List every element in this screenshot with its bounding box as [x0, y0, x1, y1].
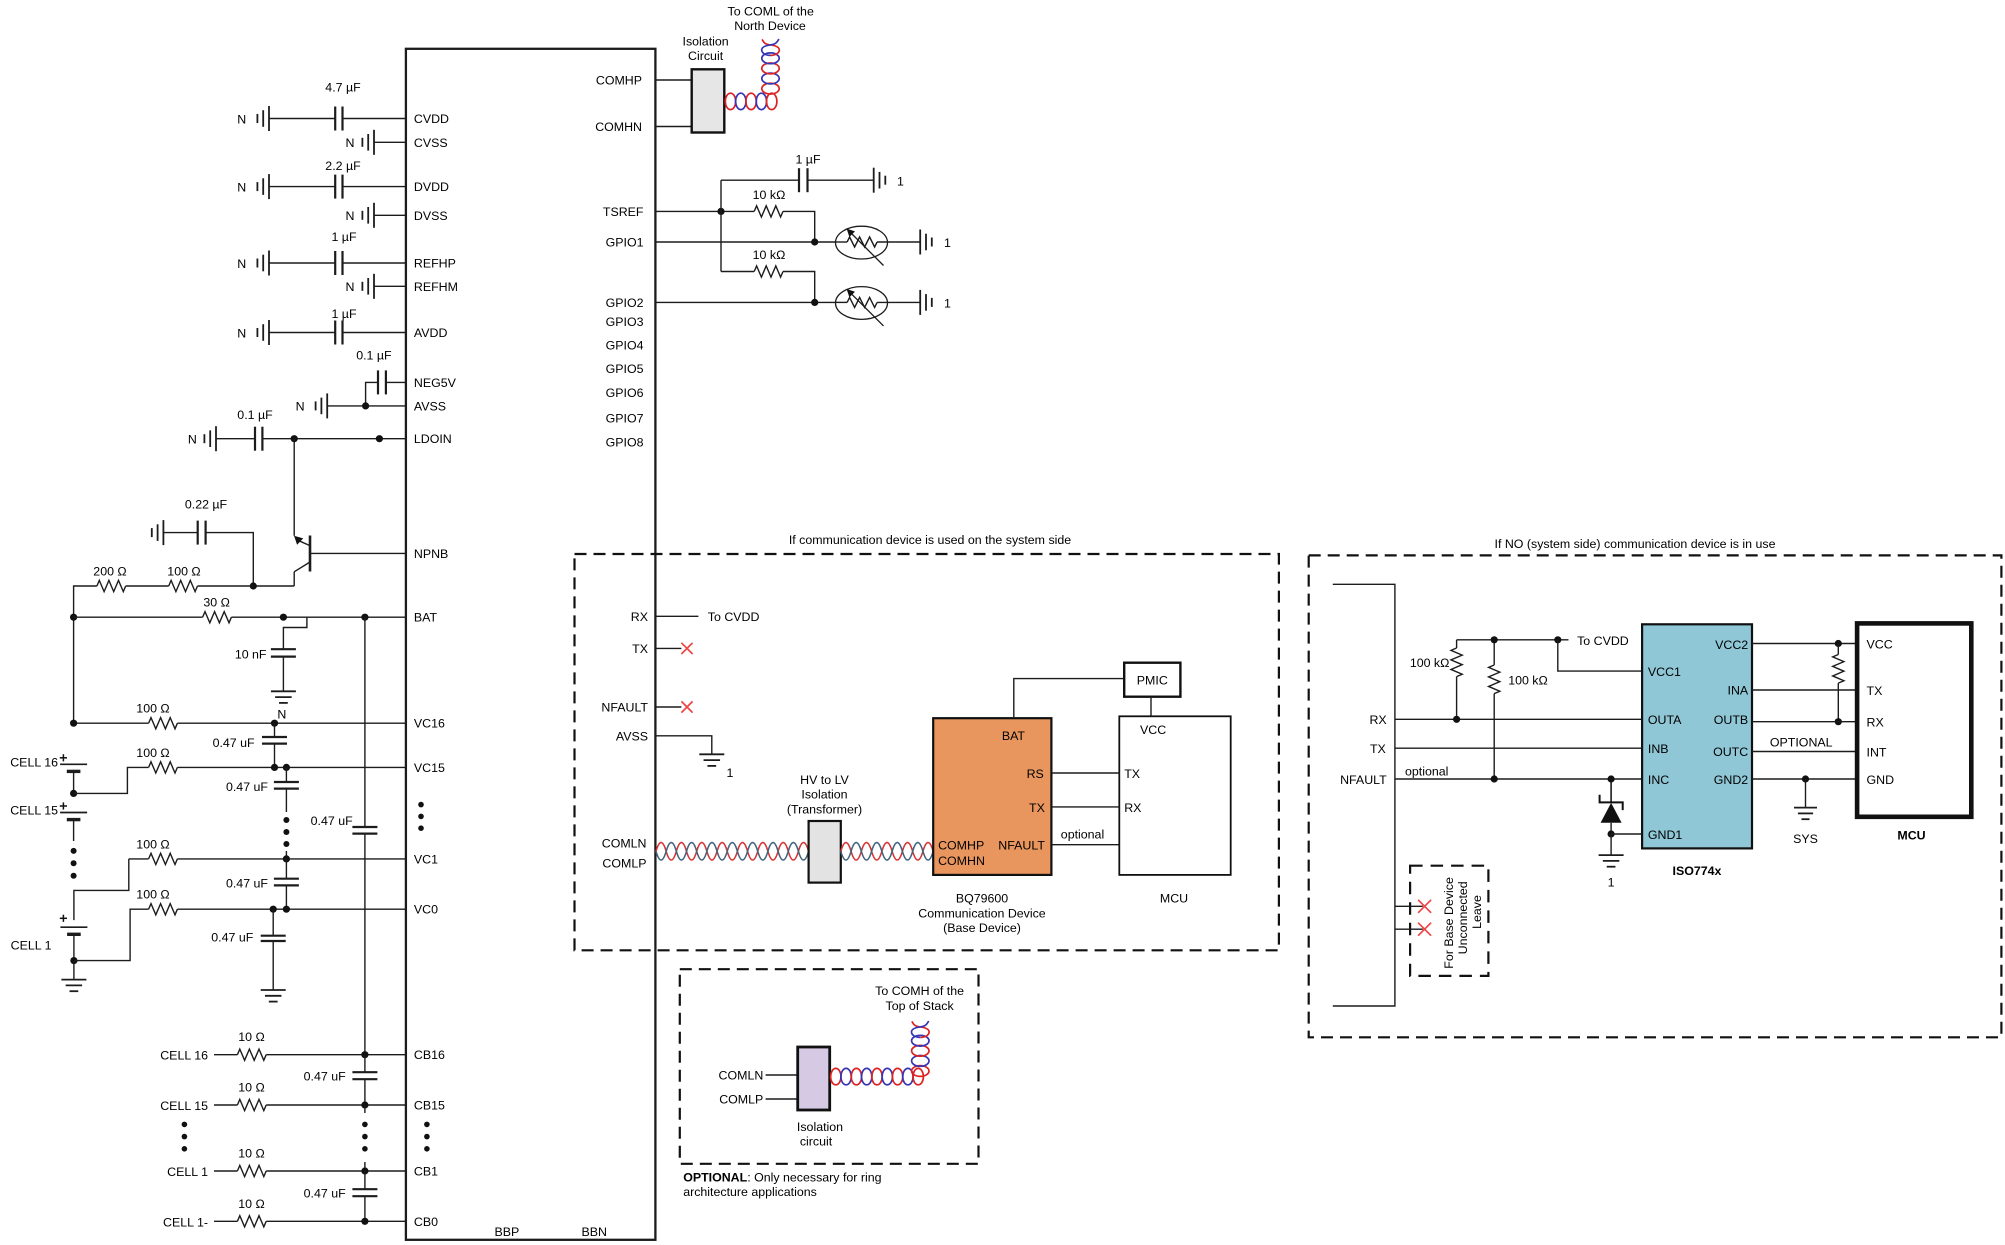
resistor 100k pullup RX — [1451, 648, 1462, 677]
coil top curl — [762, 39, 779, 55]
wire N to C-REFHP — [269, 262, 335, 264]
svg-text:If communication device is use: If communication device is used on the s… — [789, 533, 1071, 547]
svg-text:4.7 µF: 4.7 µF — [325, 81, 361, 95]
wire CELL16- jog to VC15 resistor — [74, 767, 149, 793]
svg-text:GPIO4: GPIO4 — [606, 338, 644, 352]
svg-text:COMLN: COMLN — [602, 837, 647, 851]
node GND1 junction — [1608, 830, 1615, 837]
wire CB0 to pin — [266, 1220, 406, 1222]
svg-text:OUTB: OUTB — [1714, 713, 1748, 727]
capacitor 0.47uF VC16-VC15 — [262, 736, 287, 738]
wire GND2 to MCU GND — [1752, 778, 1857, 780]
svg-text:RX: RX — [1369, 713, 1386, 727]
svg-text:BBP: BBP — [495, 1225, 520, 1239]
net N stub for DVSS — [373, 203, 375, 228]
wire COMHN to isolation circuit — [655, 126, 691, 128]
wire 1uF to net 1 — [808, 179, 874, 181]
node INC diode tap — [1608, 775, 1615, 782]
net N stub for CVSS — [373, 130, 375, 155]
capacitor 0.1uF NEG5V — [377, 370, 379, 394]
svg-text:0.47 uF: 0.47 uF — [304, 1187, 346, 1201]
svg-text:10 Ω: 10 Ω — [238, 1081, 265, 1095]
svg-text:0.47 uF: 0.47 uF — [226, 780, 268, 794]
svg-text:Isolation: Isolation — [797, 1120, 843, 1134]
wire R2 top to rail — [1493, 640, 1495, 665]
svg-text:CVSS: CVSS — [414, 136, 448, 150]
wire C-REFHP to REFHP pin — [343, 262, 406, 264]
svg-text:VCC1: VCC1 — [1648, 665, 1681, 679]
svg-text:REFHM: REFHM — [414, 280, 458, 294]
wire CELL15 bottom stub — [73, 820, 75, 841]
wire N to CVSS pin — [374, 141, 406, 143]
node BAT left — [70, 614, 77, 621]
wire TSREF from pin — [655, 210, 754, 212]
svg-text:2.2 µF: 2.2 µF — [325, 159, 361, 173]
resistor 10 Ohm (CB0) — [237, 1216, 266, 1227]
svg-text:OPTIONAL: Only necessary for r: OPTIONAL: Only necessary for ring — [683, 1171, 881, 1185]
node LDOIN junction to transistor — [291, 435, 298, 442]
capacitor 1uF AVDD — [334, 321, 336, 345]
svg-text:Communication Device: Communication Device — [918, 907, 1046, 921]
svg-text:CELL 1: CELL 1 — [11, 939, 52, 953]
HV to LV transformer box — [809, 821, 841, 883]
wire TX stub — [655, 647, 681, 649]
PMIC box — [1124, 663, 1180, 697]
dashed box: communication device on system side — [575, 554, 1279, 950]
svg-text:To CVDD: To CVDD — [1577, 634, 1629, 648]
svg-text:CB16: CB16 — [414, 1048, 445, 1062]
wire cap2 below — [285, 789, 287, 812]
svg-text:HV to LV: HV to LV — [800, 773, 849, 787]
svg-text:1: 1 — [944, 236, 951, 250]
resistor 100 Ohm (VC15) — [149, 762, 178, 773]
wire TSREF trunk up — [720, 180, 722, 211]
coil vertical (COMH link) — [762, 83, 779, 94]
svg-text:10 Ω: 10 Ω — [238, 1030, 265, 1044]
resistor 10 kOhm (GPIO2) — [754, 266, 783, 277]
battery CELL 15 — [60, 812, 87, 814]
wire GPIO2 from pin — [655, 301, 835, 303]
wire OUTB to MCU RX — [1752, 721, 1857, 723]
thermistor TH1 ellipse — [836, 226, 888, 259]
wire VC0 cap to ground — [272, 941, 274, 990]
svg-text:N: N — [345, 209, 354, 223]
svg-text:GPIO3: GPIO3 — [606, 315, 644, 329]
svg-text:10 nF: 10 nF — [235, 648, 267, 662]
wire VC0 to pin — [177, 908, 406, 910]
node BAT 10nF tap — [280, 614, 287, 621]
wire TX to MCU RX — [1051, 806, 1119, 808]
node VC0 cap tap — [270, 906, 277, 913]
wire cap to VC15 — [274, 744, 276, 768]
svg-text:Circuit: Circuit — [688, 49, 724, 63]
wire N to DVSS pin — [374, 214, 406, 216]
capacitor 0.1uF LDOIN — [254, 427, 256, 451]
wire VC15 to pin — [177, 766, 406, 768]
svg-text:CELL 1-: CELL 1- — [163, 1215, 208, 1229]
ellipsis inside IC (VC pins) — [418, 802, 424, 808]
wire trunk to 1uF cap — [721, 179, 799, 181]
transistor Q1 bottom diagonal (emitter) — [294, 562, 310, 572]
svg-text:MCU: MCU — [1897, 829, 1925, 843]
wire junction to R100 — [198, 585, 254, 587]
resistor 100 Ohm (VC16) — [149, 718, 178, 729]
wire R2 to NFAULT line — [1493, 694, 1495, 779]
wire C-AVDD to AVDD pin — [343, 332, 406, 334]
node CB0 cap bottom — [361, 1218, 368, 1225]
wire N to AVSS pin — [327, 405, 406, 407]
svg-text:OUTC: OUTC — [1713, 745, 1748, 759]
net stub for 0.22uF cap — [162, 520, 164, 545]
svg-text:REFHP: REFHP — [414, 257, 456, 271]
node RX pullup — [1453, 716, 1460, 723]
net N stub for AVSS — [326, 393, 328, 418]
wire emitter down — [293, 572, 295, 586]
svg-text:RS: RS — [1027, 767, 1044, 781]
wire cap to CB0 — [364, 1196, 366, 1221]
svg-text:Isolation: Isolation — [801, 788, 847, 802]
svg-text:VCC2: VCC2 — [1715, 638, 1748, 652]
bus bracket — [1333, 584, 1395, 1006]
svg-text:10 kΩ: 10 kΩ — [753, 248, 786, 262]
svg-text:CB1: CB1 — [414, 1165, 438, 1179]
svg-text:GND2: GND2 — [1714, 773, 1749, 787]
resistor 30 Ohm (BAT) — [203, 612, 232, 623]
svg-text:VC16: VC16 — [414, 717, 445, 731]
wire GPIO1 from pin — [655, 241, 835, 243]
node GND2 SYS tap — [1802, 775, 1809, 782]
wire unconnected stub 2 — [1395, 928, 1423, 930]
svg-text:(Base Device): (Base Device) — [943, 921, 1021, 935]
wire CELL1 bottom — [73, 934, 75, 960]
wire 10nF to ground — [282, 657, 284, 692]
ground below CELL1 — [73, 961, 75, 980]
capacitor 0.47uF CB1-CB0 — [352, 1188, 377, 1190]
wire VC1 to pin — [177, 858, 406, 860]
ellipsis inside IC (CB pins) — [424, 1122, 430, 1128]
svg-text:CB0: CB0 — [414, 1215, 438, 1229]
wire C-NEG5V to NEG5V pin — [386, 381, 406, 383]
resistor 10 Ohm (CB15) — [237, 1099, 266, 1110]
svg-text:GPIO6: GPIO6 — [606, 386, 644, 400]
svg-text:GPIO2: GPIO2 — [606, 296, 644, 310]
wire BAT middle segment — [231, 616, 406, 618]
svg-text:10 Ω: 10 Ω — [238, 1147, 265, 1161]
node VC16 left — [70, 720, 77, 727]
node AVSS/NEG5V junction — [362, 402, 369, 409]
wire R10k to GPIO1 — [783, 211, 815, 242]
MCU box (right) — [1857, 623, 1971, 816]
svg-text:TSREF: TSREF — [603, 205, 644, 219]
svg-text:PMIC: PMIC — [1137, 674, 1168, 688]
svg-text:INT: INT — [1867, 745, 1887, 759]
wire BAT rail left vertical to VC16 — [73, 617, 75, 723]
svg-text:CELL 1: CELL 1 — [167, 1165, 208, 1179]
node OUTB tap — [1835, 718, 1842, 725]
net N stub for DVDD cap — [268, 174, 270, 199]
wire emitter to junction — [253, 585, 294, 587]
wire RX to OUTA — [1395, 718, 1642, 720]
no-connect X (NFAULT) — [681, 701, 692, 712]
wire CB15 left stub — [214, 1104, 237, 1106]
wire N to REFHM pin — [374, 285, 406, 287]
svg-text:COMLP: COMLP — [719, 1093, 763, 1107]
ellipsis CB cells left — [182, 1122, 188, 1128]
svg-text:INC: INC — [1648, 773, 1669, 787]
node CB16 cap tap — [361, 1051, 368, 1058]
svg-text:CB15: CB15 — [414, 1099, 445, 1113]
svg-text:100 Ω: 100 Ω — [167, 565, 200, 579]
svg-text:100 Ω: 100 Ω — [136, 702, 169, 716]
net N stub for REFHP cap — [268, 251, 270, 276]
wire rail to VCC1 — [1558, 640, 1642, 671]
transistor Q1 base bar — [309, 536, 312, 572]
wire CB1 to pin — [266, 1170, 406, 1172]
wire VC16 cap down — [274, 723, 276, 737]
svg-text:BAT: BAT — [414, 611, 438, 625]
svg-text:100 Ω: 100 Ω — [136, 746, 169, 760]
wire SYS ground — [1805, 779, 1807, 808]
svg-text:AVSS: AVSS — [414, 399, 446, 413]
wire stub to C-0.22uF — [163, 532, 197, 534]
capacitor 1uF TSREF — [798, 168, 800, 192]
svg-text:VC1: VC1 — [414, 852, 438, 866]
svg-text:North Device: North Device — [734, 19, 806, 33]
svg-text:INA: INA — [1728, 684, 1749, 698]
wire VC1 resistor left stub — [129, 858, 149, 860]
wire GND1 to ground — [1610, 834, 1612, 855]
node LDOIN junction right — [376, 435, 383, 442]
svg-text:VCC: VCC — [1867, 638, 1893, 652]
capacitor 1uF REFHP — [334, 251, 336, 275]
node VC15 cap bottom — [271, 764, 278, 771]
thermistor TH2 ellipse — [836, 287, 888, 320]
svg-text:TX: TX — [632, 642, 648, 656]
wire NFAULT to MCU — [1051, 844, 1119, 846]
svg-text:GPIO5: GPIO5 — [606, 362, 644, 376]
MCU box (system side) — [1119, 716, 1230, 875]
wire C-0.22uF to base node — [206, 533, 254, 586]
coil horizontal (optional box) — [831, 1068, 841, 1084]
twisted pair COML left segment — [656, 843, 809, 860]
wire BAT left segment — [74, 616, 203, 618]
wire N to C-LDOIN — [216, 438, 255, 440]
svg-text:DVDD: DVDD — [414, 180, 449, 194]
node NFAULT pullup — [1491, 775, 1498, 782]
svg-text:Leave: Leave — [1470, 895, 1484, 929]
resistor 10 Ohm (CB1) — [237, 1165, 266, 1176]
wire N to C-AVDD — [269, 332, 335, 334]
ellipsis battery chain — [71, 848, 77, 854]
wire VC16 to pin — [177, 722, 406, 724]
svg-text:RX: RX — [1867, 716, 1884, 730]
wire trunk down to second R — [720, 211, 722, 271]
wire R to RX line — [1456, 677, 1458, 720]
transistor Q1 base wire to NPNB pin — [311, 552, 406, 554]
svg-text:100 Ω: 100 Ω — [136, 837, 169, 851]
node BAT bulk cap tap — [361, 614, 368, 621]
transistor Q1 top diagonal — [300, 541, 310, 545]
svg-text:N: N — [237, 112, 246, 126]
wire diode to GND1 — [1610, 823, 1612, 834]
wire CB16 to pin — [266, 1054, 406, 1056]
wire C-NEG5V left to AVSS net — [366, 382, 378, 406]
wire BAT to PMIC — [1014, 679, 1124, 719]
svg-text:0.22 µF: 0.22 µF — [185, 498, 228, 512]
transistor Q1 emitter arrowhead — [294, 536, 303, 545]
svg-text:INB: INB — [1648, 742, 1669, 756]
svg-text:TX: TX — [1029, 801, 1045, 815]
svg-text:NFAULT: NFAULT — [998, 839, 1045, 853]
wire AVSS stub — [655, 736, 711, 755]
svg-text:1: 1 — [944, 297, 951, 311]
node VC0 chain bottom — [283, 906, 290, 913]
resistor 100k pullup NFAULT — [1489, 665, 1500, 694]
capacitor 4.7uF CVDD — [334, 107, 336, 131]
node emitter/cap junction — [250, 582, 257, 589]
svg-text:COMHN: COMHN — [595, 120, 642, 134]
no-connect X (TX) — [681, 643, 692, 654]
wire NFAULT stub — [655, 706, 681, 708]
svg-text:GPIO1: GPIO1 — [606, 236, 644, 250]
svg-text:VC0: VC0 — [414, 903, 438, 917]
svg-text:30 Ω: 30 Ω — [203, 596, 230, 610]
capacitor 10nF BAT — [271, 648, 296, 650]
svg-text:BAT: BAT — [1002, 729, 1026, 743]
svg-text:GND: GND — [1867, 773, 1895, 787]
wire CB15 chain stub — [364, 1105, 366, 1113]
wire COMLP to isolation box — [766, 1098, 798, 1100]
svg-text:GPIO8: GPIO8 — [606, 436, 644, 450]
wire R200 to R100 — [126, 585, 169, 587]
transistor Q1 collector wire from LDOIN — [293, 439, 295, 536]
wire VCC2 to MCU VCC — [1752, 643, 1857, 645]
wire bulk-cap vertical BAT to CB16 — [364, 617, 366, 827]
svg-text:0.47 uF: 0.47 uF — [213, 736, 255, 750]
wire chain to VC1 — [285, 851, 287, 859]
wire INA to MCU TX — [1752, 689, 1857, 691]
svg-text:Isolation: Isolation — [683, 35, 729, 49]
svg-text:VCC: VCC — [1140, 723, 1166, 737]
thermistor TH2 zigzag — [847, 297, 877, 307]
wire VC0 cap down — [272, 909, 274, 936]
svg-text:AVDD: AVDD — [414, 326, 448, 340]
svg-text:N: N — [188, 433, 197, 447]
svg-text:N: N — [345, 136, 354, 150]
svg-text:N: N — [345, 280, 354, 294]
wire VC1 cap down — [285, 859, 287, 879]
svg-text:BQ79600: BQ79600 — [956, 892, 1008, 906]
thermistor TH2 wire through — [836, 301, 848, 303]
svg-text:NPNB: NPNB — [414, 547, 448, 561]
wire chain to CB1 — [364, 1162, 366, 1171]
wire RX stub — [655, 615, 698, 617]
node CB1 cap top — [361, 1167, 368, 1174]
ground 1 (GND1) — [1599, 854, 1624, 856]
ISO774x box — [1642, 624, 1752, 848]
svg-text:optional: optional — [1061, 828, 1104, 842]
wire CB1 cap down — [364, 1171, 366, 1189]
svg-text:CELL 15: CELL 15 — [160, 1099, 208, 1113]
wire NFAULT to INC — [1395, 778, 1642, 780]
svg-text:CVDD: CVDD — [414, 112, 449, 126]
svg-text:COMLP: COMLP — [602, 857, 646, 871]
svg-text:1 µF: 1 µF — [331, 230, 356, 244]
svg-text:CELL 16: CELL 16 — [160, 1049, 208, 1063]
dashed box: no communication device — [1309, 555, 2002, 1037]
node GPIO2 junction — [811, 299, 818, 306]
no-connect X stub 2 — [1418, 923, 1431, 936]
wire 10nF jog — [283, 617, 307, 649]
resistor 200 Ohm (NPNB) — [97, 580, 126, 591]
svg-text:COMHP: COMHP — [596, 74, 642, 88]
ground 1 (AVSS) — [699, 753, 724, 755]
wire COMLN to isolation box — [766, 1074, 798, 1076]
resistor pullup MCU (vertical) — [1833, 655, 1844, 684]
wire VC16 line — [74, 722, 149, 724]
capacitor 0.47uF CB16-CB15 — [352, 1071, 377, 1073]
ground SYS — [1794, 807, 1817, 809]
node CELL16- — [70, 790, 77, 797]
svg-text:CELL 16: CELL 16 — [10, 756, 58, 770]
battery CELL 16 — [60, 763, 87, 765]
svg-text:100 Ω: 100 Ω — [136, 888, 169, 902]
wire TX to INB — [1395, 747, 1642, 749]
wire CELL16 bottom — [73, 771, 75, 793]
resistor 100 Ohm (NPNB) — [169, 580, 198, 591]
node CELL1- — [70, 957, 77, 964]
svg-text:200 Ω: 200 Ω — [93, 565, 126, 579]
capacitor 2.2uF DVDD — [334, 175, 336, 199]
svg-text:MCU: MCU — [1160, 892, 1188, 906]
svg-text:N: N — [277, 708, 286, 722]
svg-text:COMHP: COMHP — [938, 839, 984, 853]
no-connect X stub 1 — [1418, 900, 1431, 913]
svg-text:1: 1 — [897, 174, 904, 188]
coil horizontal (COMH link) — [725, 93, 735, 109]
svg-text:10 Ω: 10 Ω — [238, 1197, 265, 1211]
ground N below 10nF — [271, 690, 296, 692]
coil top curl (optional box) — [912, 1021, 929, 1037]
node TSREF junction — [717, 208, 724, 215]
wire resistor to RX line — [1837, 683, 1839, 722]
wire GND1 to box — [1611, 833, 1642, 835]
svg-text:N: N — [237, 326, 246, 340]
svg-text:LDOIN: LDOIN — [414, 432, 452, 446]
net 1 stub (GPIO2) — [919, 290, 921, 315]
thermistor TH1 zigzag — [847, 237, 877, 247]
wire N to C-CVDD — [269, 118, 335, 120]
svg-text:architecture applications: architecture applications — [683, 1185, 817, 1199]
net 1 stub (GPIO1) — [919, 230, 921, 255]
wire cap to CB15 — [364, 1079, 366, 1105]
thermistor TH1 arrow — [851, 233, 884, 266]
svg-text:circuit: circuit — [800, 1135, 833, 1149]
svg-text:NFAULT: NFAULT — [601, 701, 648, 715]
twisted pair COML right segment — [841, 843, 933, 860]
svg-text:1: 1 — [1608, 876, 1615, 890]
wire OUTC to MCU INT — [1752, 751, 1857, 753]
ground below VC0 cap — [261, 989, 286, 991]
svg-text:NEG5V: NEG5V — [414, 376, 457, 390]
node GPIO1 junction — [811, 238, 818, 245]
svg-text:ISO774x: ISO774x — [1673, 864, 1722, 878]
wire resistor stub top — [1837, 644, 1839, 655]
svg-text:DVSS: DVSS — [414, 209, 448, 223]
isolation circuit box (top) — [692, 69, 725, 132]
svg-text:COMHN: COMHN — [938, 854, 985, 868]
svg-text:BBN: BBN — [582, 1225, 607, 1239]
